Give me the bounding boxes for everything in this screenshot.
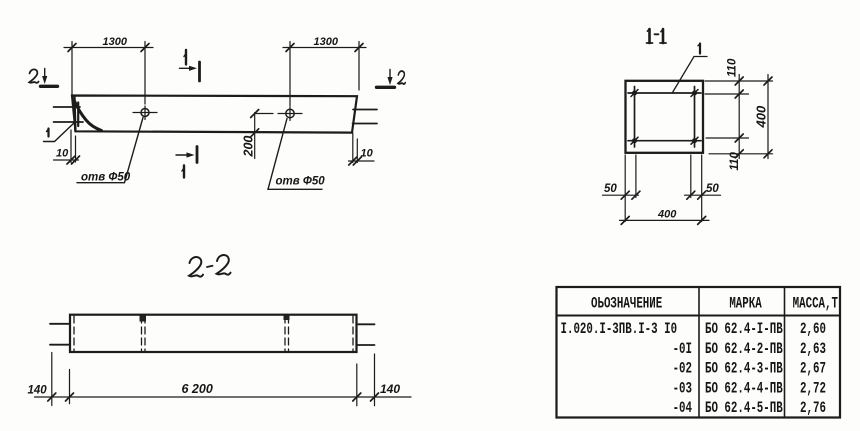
section 2-2 dashed joint lines [74, 316, 353, 351]
table column 3 rows [800, 321, 826, 417]
section 1-1 right extension lines [705, 81, 773, 154]
svg-text:140: 140 [380, 382, 400, 396]
hole 1 (circle with centerlines) [133, 106, 157, 120]
svg-text:2,60: 2,60 [800, 321, 826, 338]
svg-text:БО 62.4-5-ПВ: БО 62.4-5-ПВ [705, 400, 783, 417]
section 1-1 outer vertical dimension line 400 [764, 75, 772, 159]
svg-text:140: 140 [28, 385, 48, 397]
dimension 200 [251, 110, 273, 159]
svg-text:400: 400 [657, 209, 677, 221]
dimension 1300 right [283, 42, 366, 107]
dimension 10 right [349, 133, 375, 165]
section 1-1 bottom extension lines [625, 155, 702, 222]
table header text [591, 296, 838, 313]
svg-text:-02: -02 [673, 361, 692, 378]
hole 2 (circle with centerlines) [278, 107, 302, 121]
svg-text:1300: 1300 [103, 36, 128, 48]
table column 2 rows [705, 321, 783, 417]
dimension 50 right [685, 191, 721, 199]
svg-text:БО 62.4-4-ПВ: БО 62.4-4-ПВ [705, 381, 783, 398]
section 2-2 rebar right [357, 324, 375, 345]
beam elevation outline [72, 96, 357, 133]
svg-text:2,67: 2,67 [800, 361, 826, 378]
svg-text:отв Ф50: отв Ф50 [276, 176, 326, 188]
rebar protruding right end (elevation) [353, 110, 378, 124]
lifting loop marks [140, 316, 290, 322]
dimension 10 left [54, 130, 80, 164]
dimension 400 bottom [620, 216, 710, 224]
dimension 1300 left [64, 42, 153, 105]
section marker 1 top [180, 62, 200, 81]
bearing detail triangle at left end [74, 96, 102, 131]
svg-text:БО 62.4-2-ПВ: БО 62.4-2-ПВ [705, 341, 783, 358]
svg-text:2,76: 2,76 [800, 400, 826, 417]
svg-text:400: 400 [754, 105, 769, 128]
svg-text:ОЬОЗНАЧЕНИЕ: ОЬОЗНАЧЕНИЕ [591, 296, 662, 313]
section 1-1 rebar leader 1 [673, 57, 708, 93]
svg-text:2,72: 2,72 [800, 381, 826, 398]
table outer border [557, 287, 841, 418]
section 1-1 inner vertical dimension line [735, 75, 743, 159]
svg-text:МАССА,Т: МАССА,Т [793, 296, 838, 313]
rebar corner dots [632, 91, 697, 144]
section 2-2 dimension chain [35, 353, 412, 406]
table column 1 rows [561, 321, 693, 417]
svg-text:-0I: -0I [673, 341, 692, 358]
svg-text:10: 10 [361, 148, 374, 160]
section marker 1 bottom [176, 147, 197, 163]
svg-text:10: 10 [56, 148, 69, 160]
svg-text:БО 62.4-3-ПВ: БО 62.4-3-ПВ [705, 361, 783, 378]
section 1-1 title [647, 29, 667, 43]
svg-text:6 200: 6 200 [182, 382, 213, 396]
svg-text:2,63: 2,63 [800, 341, 826, 358]
svg-text:1300: 1300 [314, 36, 339, 48]
section marker 2 right [377, 70, 395, 88]
rebar protruding left end (elevation) [54, 107, 84, 122]
section 2-2 title [189, 255, 231, 277]
svg-text:110: 110 [729, 152, 741, 171]
section 1-1 outer square [626, 81, 704, 153]
svg-text:-04: -04 [673, 400, 692, 417]
dimension 50 left [603, 191, 640, 199]
svg-text:отв Ф50: отв Ф50 [81, 172, 131, 184]
svg-text:110: 110 [727, 58, 739, 77]
leader 1 at left end [44, 123, 75, 142]
hole label otv f50 left [77, 118, 143, 183]
svg-text:50: 50 [604, 183, 617, 195]
svg-text:I.020.I-3ПВ.I-3 I0: I.020.I-3ПВ.I-3 I0 [561, 321, 678, 338]
hole label otv f50 right [268, 119, 322, 190]
svg-text:200: 200 [242, 136, 256, 158]
section 2-2 beam outline [70, 315, 357, 352]
svg-text:БО 62.4-I-ПВ: БО 62.4-I-ПВ [705, 321, 783, 338]
table column lines [557, 287, 841, 418]
svg-text:МАРКА: МАРКА [729, 296, 762, 313]
section marker 2 left [41, 69, 58, 87]
svg-text:50: 50 [706, 183, 719, 195]
section 2-2 rebar left [50, 324, 70, 345]
section 1-1 rebar frame [628, 87, 701, 148]
svg-text:-03: -03 [673, 381, 692, 398]
